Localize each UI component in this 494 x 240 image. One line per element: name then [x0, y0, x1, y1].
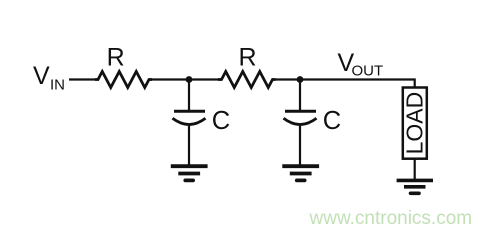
wire R2 to node B and to load — [273, 80, 415, 89]
resistor R2 — [218, 72, 276, 88]
capacitor C1 — [173, 111, 206, 124]
ground under C2 — [282, 166, 319, 180]
node B junction dot — [297, 76, 304, 83]
wire input lead — [69, 78, 99, 80]
ground under load — [397, 180, 433, 193]
svg-text:LOAD: LOAD — [402, 92, 428, 155]
svg-text:R: R — [238, 43, 256, 71]
wire R1 to node A — [149, 78, 222, 80]
label V_OUT — [338, 49, 384, 80]
wire node B down to C2 — [299, 80, 301, 111]
capacitor C2 — [284, 111, 317, 124]
ground under C1 — [171, 166, 208, 180]
svg-text:C: C — [212, 107, 230, 135]
node A junction dot — [186, 76, 193, 83]
load box — [403, 88, 427, 159]
wire C2 to ground — [299, 124, 301, 166]
svg-text:V: V — [33, 62, 50, 90]
wire load to ground — [414, 159, 416, 179]
label V_IN — [33, 62, 65, 94]
wire node A down to C1 — [188, 80, 190, 111]
svg-text:OUT: OUT — [352, 63, 384, 80]
wire C1 to ground — [188, 124, 190, 166]
svg-text:R: R — [107, 43, 125, 71]
resistor R1 — [95, 72, 152, 88]
svg-text:www.cntronics.com: www.cntronics.com — [309, 208, 473, 229]
svg-text:IN: IN — [50, 77, 65, 94]
svg-text:C: C — [323, 107, 341, 135]
